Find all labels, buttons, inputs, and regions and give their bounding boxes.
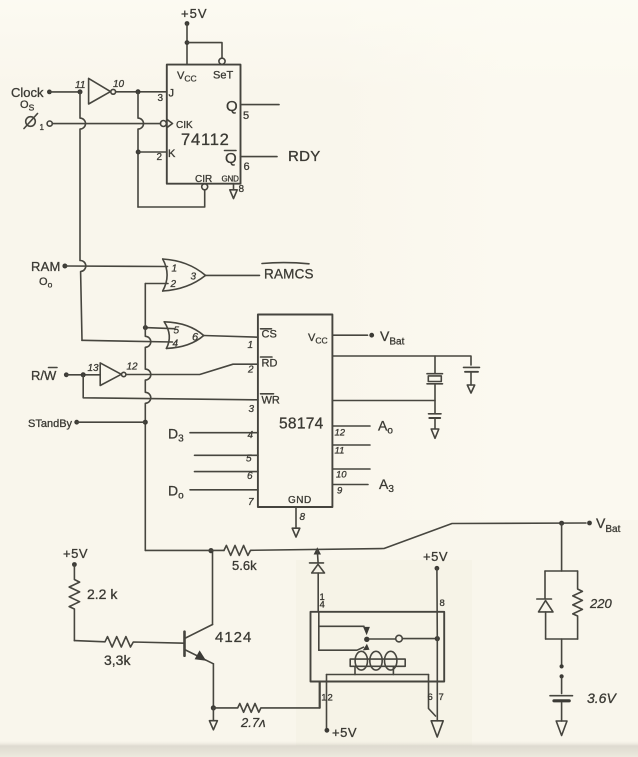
svg-text:3: 3	[158, 93, 164, 104]
or-gate G1 (RAMCS)	[163, 259, 206, 291]
svg-text:5: 5	[174, 326, 180, 337]
or-gate G2 (CS)	[164, 322, 204, 350]
svg-text:8: 8	[239, 184, 245, 195]
wire pin 10	[332, 469, 370, 481]
wire OR2 output to CS pin 1	[204, 336, 258, 338]
label STandBy	[28, 418, 79, 430]
wire pin 12	[332, 426, 370, 439]
wire to SET bubble	[187, 43, 222, 59]
ground at emitter	[209, 708, 217, 730]
svg-text:+5V: +5V	[423, 549, 448, 564]
svg-text:11: 11	[335, 446, 345, 457]
svg-text:Q: Q	[225, 150, 237, 167]
svg-text:SeT: SeT	[213, 70, 233, 82]
svg-text:4: 4	[173, 339, 179, 350]
wire Qbar pin 6 output	[241, 156, 278, 158]
svg-text:WR: WR	[262, 395, 280, 407]
wire OR1 input 2	[145, 283, 168, 285]
svg-text:5: 5	[243, 110, 249, 122]
svg-text:3.6V: 3.6V	[587, 690, 617, 706]
wire pin 11	[332, 445, 370, 457]
svg-text:12: 12	[335, 428, 346, 439]
wire CLR loop	[138, 190, 205, 207]
label VBat at Vcc	[380, 328, 405, 348]
svg-text:4: 4	[320, 600, 325, 611]
wire pin 8 down through contact to ground	[436, 568, 438, 721]
wire inverter out to J pin	[116, 89, 167, 94]
svg-text:74112: 74112	[181, 131, 230, 149]
wire RAM to OR1 input 1	[65, 265, 168, 268]
svg-text:6: 6	[247, 471, 253, 482]
svg-text:RAM: RAM	[31, 259, 61, 274]
relay pin label 8	[440, 598, 445, 609]
label RDY	[288, 148, 321, 165]
wire vertical J-K branch	[136, 92, 144, 207]
svg-text:5.6k: 5.6k	[232, 558, 257, 573]
relay armature contact	[319, 612, 370, 651]
label A3	[379, 476, 394, 495]
node dots to battery	[560, 664, 564, 678]
charge network bottom bar	[546, 639, 578, 664]
inverter U3 13-12	[88, 362, 139, 386]
label RAMCS with overline	[262, 263, 314, 282]
svg-text:4124: 4124	[215, 629, 252, 646]
svg-text:10: 10	[336, 470, 347, 481]
diode D2 (trickle)	[537, 571, 553, 639]
relay pin labels 6 7	[428, 692, 444, 703]
wire OR2 input 4 (from clock branch)	[82, 340, 173, 342]
svg-text:3: 3	[191, 272, 197, 283]
wire vertical clock branch down	[80, 92, 86, 340]
svg-text:8: 8	[440, 598, 445, 609]
wire VBat down to charge network	[561, 523, 563, 571]
svg-text:R/W: R/W	[31, 368, 57, 383]
svg-text:7: 7	[248, 497, 254, 508]
wire Vcc pin to VBat	[332, 333, 374, 338]
diode D1 (relay clamp)	[310, 547, 325, 612]
wire standby	[77, 421, 146, 423]
svg-text:GND: GND	[222, 175, 240, 184]
svg-text:4: 4	[248, 430, 254, 441]
svg-text:2.7ʌ: 2.7ʌ	[240, 715, 266, 730]
CLR bubble	[202, 184, 208, 190]
svg-text:+5V: +5V	[181, 6, 208, 21]
svg-text:2: 2	[247, 365, 254, 376]
resistor 3.3k	[74, 637, 184, 668]
svg-text:12: 12	[127, 362, 139, 373]
IC U2 58174 body	[258, 315, 333, 508]
node VBat bottom	[587, 515, 620, 535]
svg-text:9: 9	[337, 486, 343, 497]
svg-text:STandBy: STandBy	[28, 418, 73, 430]
wire 5.6k to VBat rail	[251, 521, 586, 551]
+5V supply bottom-left	[63, 546, 88, 567]
svg-text:6: 6	[428, 692, 433, 703]
wire collector up to 5.6k node	[208, 548, 213, 625]
wire backup supply rail	[332, 356, 471, 365]
+5V supply top	[181, 6, 208, 26]
battery 3.6V	[550, 678, 617, 706]
wire pin 4	[190, 432, 258, 434]
svg-text:1: 1	[321, 693, 326, 704]
label R/W	[31, 368, 69, 384]
relay coil return wires	[320, 666, 436, 728]
wire inverter out to RD pin 2	[126, 364, 258, 374]
ground at relay pins 6 7	[431, 721, 443, 737]
wire pin 5	[195, 454, 258, 456]
svg-text:2: 2	[328, 693, 333, 704]
svg-text:Q: Q	[226, 98, 238, 115]
svg-text:CIK: CIK	[176, 120, 193, 131]
svg-text:Clock: Clock	[11, 85, 44, 100]
wire emitter down	[211, 664, 216, 711]
svg-text:8: 8	[300, 512, 306, 523]
wire OR2 input 5	[143, 325, 174, 330]
svg-text:2.2 k: 2.2 k	[87, 586, 118, 602]
U1 labels	[168, 70, 239, 186]
relay pin labels 1 2	[321, 693, 332, 704]
wire Q pin 5 output	[241, 104, 280, 106]
svg-text:220: 220	[589, 596, 612, 611]
label D3	[168, 426, 184, 445]
wire osc rail 2	[332, 400, 435, 402]
crystal Y1	[427, 356, 443, 414]
svg-text:6: 6	[192, 332, 199, 344]
svg-text:58174: 58174	[279, 416, 324, 433]
ground U2 pin 8	[292, 507, 305, 537]
wire 2.7 up to relay pin 1	[318, 682, 320, 708]
transistor Q1 4124	[185, 625, 253, 664]
wire K pin	[138, 151, 167, 153]
svg-text:RD: RD	[262, 358, 278, 370]
wire +5V to Vcc pin	[185, 24, 190, 65]
SET bubble	[219, 58, 225, 64]
svg-text:RDY: RDY	[288, 148, 321, 165]
resistor 220	[573, 571, 613, 639]
svg-text:2: 2	[170, 279, 177, 290]
wire phi1 to CLK	[52, 123, 160, 125]
svg-text:1: 1	[40, 123, 45, 132]
svg-text:+5V: +5V	[332, 725, 357, 740]
charge network top bar	[545, 570, 578, 572]
svg-text:6: 6	[244, 161, 250, 173]
svg-text:1: 1	[248, 340, 254, 351]
svg-text:1: 1	[172, 264, 178, 275]
U2 left pin numbers	[246, 340, 255, 508]
IC U1 74112 body	[167, 65, 241, 184]
label A0	[378, 418, 393, 437]
svg-text:3,3k: 3,3k	[104, 652, 131, 668]
inverter U3 11-10	[75, 78, 125, 104]
wire pin 9	[332, 485, 368, 497]
wire standby bus to 5.6k node	[145, 549, 224, 551]
wire clock to inverter	[49, 89, 82, 94]
svg-text:J: J	[169, 88, 175, 100]
svg-text:GND: GND	[288, 495, 312, 506]
label D0	[168, 483, 184, 502]
U1 pin numbers	[157, 93, 250, 195]
svg-text:7: 7	[439, 692, 444, 703]
svg-text:11: 11	[75, 80, 85, 91]
wire R/W input	[66, 372, 100, 377]
capacitor C2	[429, 414, 442, 439]
+5V supply at relay pin 8	[423, 549, 448, 571]
resistor 2.7 ohm	[213, 704, 319, 731]
relay coil	[350, 651, 405, 670]
ground below battery	[556, 703, 567, 736]
svg-text:2: 2	[157, 152, 163, 163]
relay contact wire and break circle	[370, 635, 440, 642]
wire OR1 output	[206, 274, 260, 276]
label Clock Os	[11, 85, 52, 113]
CLK bubble	[160, 121, 166, 127]
wire bus vertical (standby net)	[143, 284, 151, 551]
svg-text:RAMCS: RAMCS	[264, 267, 314, 282]
label phi1	[24, 114, 52, 133]
svg-text:13: 13	[88, 363, 100, 374]
label RAM O0	[31, 259, 67, 290]
svg-text:CS: CS	[262, 329, 277, 341]
relay K1 body	[311, 612, 445, 682]
clock input triangle on CLK pin	[167, 119, 173, 127]
ground U1 pin 8	[230, 184, 237, 199]
wire pin 6	[195, 471, 258, 473]
wire pin 7	[190, 489, 258, 491]
U2 labels	[261, 329, 328, 507]
svg-text:10: 10	[113, 79, 125, 90]
svg-text:+5V: +5V	[63, 546, 88, 561]
capacitor C1	[464, 367, 480, 393]
wire R/W branch to WR pin 3	[83, 375, 258, 400]
relay pin labels 1 4	[320, 592, 325, 611]
svg-text:K: K	[168, 148, 176, 160]
resistor 5.6k	[224, 545, 257, 573]
svg-text:3: 3	[249, 404, 255, 415]
resistor 2.2k	[69, 565, 118, 641]
+5V supply at relay pin 2	[325, 725, 358, 740]
